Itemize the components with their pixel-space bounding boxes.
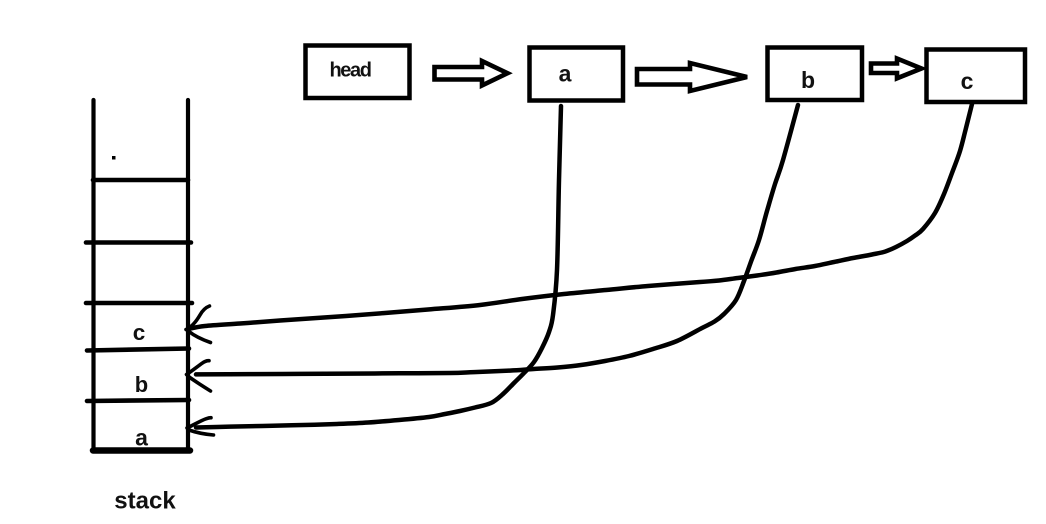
svg-text:c: c (961, 68, 974, 94)
svg-text:head: head (329, 60, 370, 82)
svg-text:b: b (801, 67, 815, 93)
svg-text:a: a (559, 60, 572, 86)
svg-text:stack: stack (114, 488, 176, 515)
svg-text:a: a (135, 425, 148, 451)
svg-text:b: b (135, 372, 148, 397)
svg-text:c: c (133, 320, 146, 345)
